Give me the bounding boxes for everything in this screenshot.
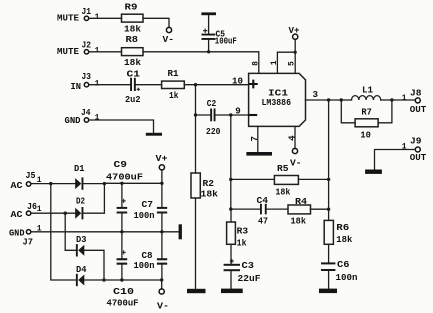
wire J6 branch down to D3 xyxy=(65,213,76,250)
node C7 top xyxy=(160,182,163,185)
connector J2 xyxy=(57,40,100,57)
svg-text:10: 10 xyxy=(360,130,371,141)
svg-text:R7: R7 xyxy=(361,107,372,118)
wire D2 to D1 node xyxy=(83,184,104,214)
svg-text:4700uF: 4700uF xyxy=(107,297,139,308)
svg-text:100n: 100n xyxy=(134,210,155,221)
node L1 right xyxy=(390,98,393,101)
svg-text:C1: C1 xyxy=(127,69,141,80)
resistor R1 1k xyxy=(162,68,185,101)
svg-text:AC: AC xyxy=(11,209,23,220)
svg-text:J9: J9 xyxy=(410,135,422,146)
svg-text:OUT: OUT xyxy=(410,104,427,115)
diode D3 xyxy=(76,234,87,257)
ground (pin 7) xyxy=(246,152,272,156)
node V- rail C10 xyxy=(120,278,123,281)
resistor R7 10 (across L1) xyxy=(341,100,392,141)
svg-text:D2: D2 xyxy=(76,196,85,207)
wire J9 to ground xyxy=(375,150,416,170)
wire R9 to V- terminal xyxy=(143,18,169,27)
capacitor C3 22uF xyxy=(224,244,261,288)
svg-text:18k: 18k xyxy=(201,188,219,199)
ground (above C5) xyxy=(201,12,216,33)
svg-text:V+: V+ xyxy=(289,25,300,36)
svg-text:R9: R9 xyxy=(125,2,138,13)
power terminal V- (PSU) xyxy=(157,280,169,312)
svg-text:J6: J6 xyxy=(27,201,37,212)
node C5 junction xyxy=(207,50,210,53)
power terminal V- (mute pullup) xyxy=(163,27,175,45)
svg-text:18k: 18k xyxy=(124,57,141,68)
svg-text:4700uF: 4700uF xyxy=(106,172,143,183)
resistor R2 18k xyxy=(191,173,218,289)
wire D3 to V- rail xyxy=(84,250,104,280)
svg-text:C3: C3 xyxy=(242,260,255,271)
pin 5 label xyxy=(288,61,297,66)
svg-text:V-: V- xyxy=(157,301,169,312)
svg-text:22uF: 22uF xyxy=(238,273,261,284)
svg-text:V-: V- xyxy=(290,158,302,169)
wire R8 to IC pin 8 xyxy=(143,52,259,74)
node C8 gnd xyxy=(160,230,163,233)
svg-text:J8: J8 xyxy=(410,88,422,99)
diode D4 xyxy=(76,264,87,286)
connector J8 xyxy=(402,88,427,116)
pin 1 label xyxy=(270,60,279,65)
pin 3 label xyxy=(313,89,319,100)
capacitor C5 100uF xyxy=(202,29,238,52)
svg-text:100uF: 100uF xyxy=(215,35,237,46)
resistor R5 18k xyxy=(231,163,329,197)
svg-text:18k: 18k xyxy=(124,23,141,34)
node C9 top xyxy=(120,182,123,185)
wire IC pin 3 output xyxy=(306,99,342,101)
svg-text:V-: V- xyxy=(163,34,175,45)
ground (J4) xyxy=(146,133,162,136)
svg-text:3: 3 xyxy=(313,89,319,100)
node D1 cathode xyxy=(103,182,106,185)
svg-text:10: 10 xyxy=(232,76,243,87)
power terminal V+ (PSU) xyxy=(156,153,168,183)
pin 9 label xyxy=(235,106,241,117)
wire D1 to V+ rail xyxy=(83,183,104,185)
wire node to C2 xyxy=(196,114,211,116)
node R5 right xyxy=(327,178,330,181)
svg-text:1: 1 xyxy=(95,114,100,123)
wire V+ rail xyxy=(104,182,161,184)
svg-text:J3: J3 xyxy=(82,71,92,82)
svg-text:R4: R4 xyxy=(295,196,307,207)
node J5 branch xyxy=(49,182,52,185)
svg-text:C10: C10 xyxy=(113,286,134,297)
wire V+ to pins 1 and 5 xyxy=(277,39,295,73)
svg-text:MUTE: MUTE xyxy=(57,46,79,57)
resistor R3 1k xyxy=(227,209,249,248)
wire input node down to R2 xyxy=(195,85,197,173)
wire IC pin 7 to ground xyxy=(257,126,259,152)
pin 10 label xyxy=(232,76,243,87)
node C4 left xyxy=(229,207,232,210)
node C2 left xyxy=(194,113,197,116)
wire feedback vertical xyxy=(230,115,232,209)
wire V- rail xyxy=(104,279,162,281)
wire J4 to ground xyxy=(89,120,154,133)
power terminal V+ (IC supply) xyxy=(289,25,300,40)
pin 8 label xyxy=(252,61,261,66)
capacitor C9 4700uF xyxy=(106,159,143,232)
svg-text:C2: C2 xyxy=(207,98,217,109)
svg-text:1: 1 xyxy=(95,79,100,88)
ground (C6) xyxy=(319,289,337,294)
svg-text:1: 1 xyxy=(95,47,100,56)
svg-text:47: 47 xyxy=(258,215,268,226)
wire C1 to R1 xyxy=(136,84,162,86)
svg-text:AC: AC xyxy=(11,180,23,191)
svg-text:J2: J2 xyxy=(82,40,92,51)
capacitor C7 100n xyxy=(134,183,168,232)
svg-text:V+: V+ xyxy=(156,153,168,164)
wire C2 to IC pin 9 xyxy=(216,114,249,116)
wire J5 branch down to D4 xyxy=(51,184,76,280)
wire D4 to V- rail xyxy=(84,279,104,281)
ground (R2) xyxy=(187,289,206,293)
wire J3 to C1 xyxy=(89,84,130,86)
svg-text:1: 1 xyxy=(270,60,279,65)
ground (C3) xyxy=(221,289,243,294)
wire GND rail xyxy=(31,231,179,233)
resistor R4 18k xyxy=(288,196,329,226)
svg-text:J1: J1 xyxy=(82,6,92,17)
svg-text:1: 1 xyxy=(95,13,100,22)
inductor L1 xyxy=(341,85,392,100)
connector J9 xyxy=(402,135,427,163)
wire J1 to R9 xyxy=(89,17,122,19)
svg-text:C7: C7 xyxy=(142,199,154,210)
connector J4 xyxy=(65,107,100,126)
capacitor C10 4700uF xyxy=(107,232,139,308)
svg-text:8: 8 xyxy=(252,61,261,66)
svg-text:C6: C6 xyxy=(337,259,350,270)
wire L1 to J8 xyxy=(392,99,416,101)
svg-text:18k: 18k xyxy=(336,234,352,245)
node J6 branch xyxy=(63,212,66,215)
connector J1 xyxy=(57,6,100,23)
node feedback top xyxy=(229,113,232,116)
svg-text:L1: L1 xyxy=(362,85,373,96)
svg-text:R3: R3 xyxy=(237,226,249,237)
svg-text:J4: J4 xyxy=(81,107,91,118)
svg-text:D1: D1 xyxy=(74,163,85,174)
pin 4 label xyxy=(286,135,297,141)
wire J6 to D2 xyxy=(31,212,75,214)
svg-text:1k: 1k xyxy=(169,90,179,101)
node R5 left xyxy=(229,178,232,181)
svg-text:R5: R5 xyxy=(277,163,289,174)
connector J3 xyxy=(71,71,100,92)
svg-text:220: 220 xyxy=(206,126,221,137)
ground (rail end bar) xyxy=(179,224,182,239)
svg-text:R1: R1 xyxy=(168,68,179,79)
node input xyxy=(194,83,197,86)
svg-text:100n: 100n xyxy=(134,260,155,271)
node C10 gnd xyxy=(120,230,123,233)
svg-text:5: 5 xyxy=(288,61,297,66)
node V+ corner xyxy=(294,51,297,54)
svg-text:LM3886: LM3886 xyxy=(262,97,292,108)
svg-text:18k: 18k xyxy=(291,215,307,226)
capacitor C8 100n xyxy=(134,232,168,280)
capacitor C6 100n xyxy=(321,244,358,288)
svg-text:2u2: 2u2 xyxy=(125,94,141,105)
connector J5 xyxy=(11,170,42,191)
node R4 right xyxy=(327,208,330,211)
svg-text:1: 1 xyxy=(37,205,42,214)
node D4 cathode xyxy=(102,278,105,281)
svg-text:4: 4 xyxy=(286,135,297,141)
diode D2 xyxy=(75,196,85,220)
svg-text:D3: D3 xyxy=(76,234,87,245)
svg-text:R6: R6 xyxy=(336,222,349,233)
op-amp IC1 LM3886 xyxy=(248,73,305,126)
svg-text:7: 7 xyxy=(249,136,260,142)
svg-text:C4: C4 xyxy=(257,195,269,206)
wire J2 to R8 xyxy=(89,51,122,53)
svg-text:1: 1 xyxy=(402,94,407,103)
svg-text:9: 9 xyxy=(235,106,241,117)
svg-text:GND: GND xyxy=(65,115,81,126)
svg-text:18k: 18k xyxy=(275,186,290,197)
wire IC pin 4 to V- xyxy=(294,126,296,148)
capacitor C2 220 xyxy=(206,98,221,137)
diode D1 xyxy=(74,163,85,190)
resistor R8 18k xyxy=(122,34,144,68)
svg-text:C9: C9 xyxy=(114,159,128,170)
wire J5 to D1 xyxy=(31,183,75,185)
svg-text:R2: R2 xyxy=(203,178,215,189)
power terminal V- (pin 4) xyxy=(290,148,302,168)
capacitor C1 2u2 xyxy=(125,69,141,105)
resistor R9 18k xyxy=(122,2,144,35)
svg-text:J7: J7 xyxy=(23,237,34,248)
svg-text:IN: IN xyxy=(71,81,82,92)
svg-text:D4: D4 xyxy=(76,264,87,275)
svg-text:1: 1 xyxy=(402,143,407,152)
ground (J9) xyxy=(365,170,382,174)
svg-text:J5: J5 xyxy=(26,170,36,181)
resistor R6 18k xyxy=(324,209,352,245)
svg-text:R8: R8 xyxy=(126,34,139,45)
capacitor C4 47 xyxy=(231,195,288,227)
wire output vertical xyxy=(328,100,330,209)
node L1 left xyxy=(340,98,343,101)
node V- rail C8 xyxy=(160,278,163,281)
connector J6 xyxy=(11,201,42,220)
svg-text:1k: 1k xyxy=(237,237,247,248)
svg-text:MUTE: MUTE xyxy=(57,13,79,24)
wire R1 to IC pin 10 xyxy=(184,84,248,86)
pin 7 label xyxy=(249,136,260,142)
node output xyxy=(327,98,330,101)
connector J7 xyxy=(9,224,42,247)
svg-text:OUT: OUT xyxy=(410,152,427,163)
svg-text:100n: 100n xyxy=(336,272,358,283)
